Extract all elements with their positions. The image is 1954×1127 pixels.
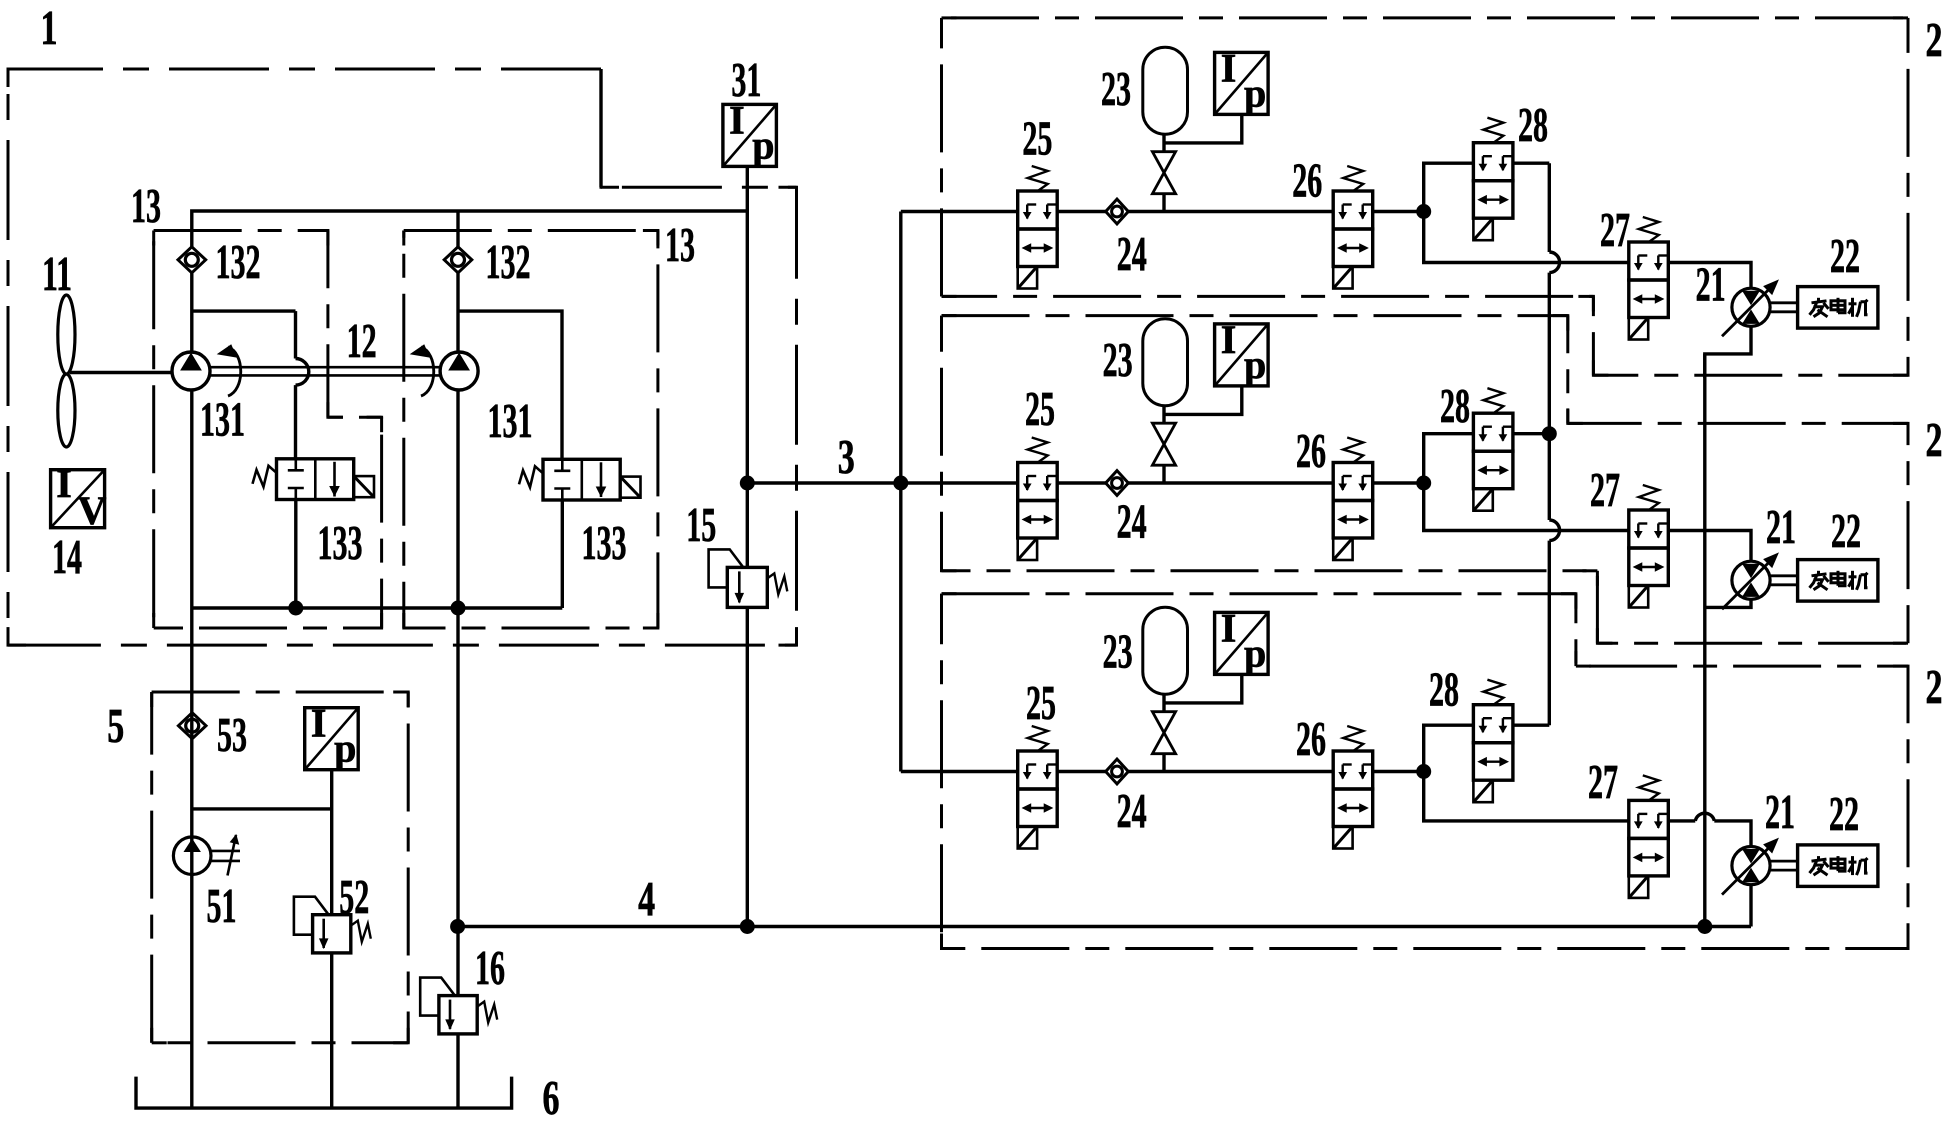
svg-text:25: 25	[1025, 381, 1055, 436]
svg-text:13: 13	[665, 217, 695, 272]
svg-text:2: 2	[1926, 412, 1943, 467]
svg-text:I: I	[1221, 605, 1237, 650]
svg-text:21: 21	[1766, 499, 1796, 554]
svg-text:27: 27	[1588, 754, 1618, 809]
svg-text:p: p	[1244, 70, 1266, 115]
svg-text:I: I	[1221, 45, 1237, 90]
svg-text:31: 31	[731, 52, 761, 107]
svg-text:16: 16	[475, 940, 505, 995]
svg-text:131: 131	[200, 392, 245, 447]
svg-text:I: I	[1221, 317, 1237, 362]
svg-text:53: 53	[217, 707, 247, 762]
svg-text:23: 23	[1103, 624, 1133, 679]
svg-text:4: 4	[638, 871, 655, 926]
svg-text:51: 51	[207, 878, 237, 933]
svg-text:I: I	[311, 701, 327, 746]
svg-text:24: 24	[1117, 783, 1147, 838]
svg-text:26: 26	[1296, 423, 1326, 478]
svg-text:27: 27	[1590, 462, 1620, 517]
svg-text:I: I	[56, 461, 72, 506]
svg-text:133: 133	[318, 515, 363, 570]
svg-text:27: 27	[1600, 202, 1630, 257]
svg-text:25: 25	[1026, 675, 1056, 730]
svg-text:28: 28	[1518, 97, 1548, 152]
svg-text:26: 26	[1292, 153, 1322, 208]
svg-text:13: 13	[131, 178, 161, 233]
svg-text:25: 25	[1022, 111, 1052, 166]
svg-text:15: 15	[686, 497, 716, 552]
svg-text:23: 23	[1103, 332, 1133, 387]
svg-text:14: 14	[52, 529, 82, 584]
svg-text:12: 12	[347, 313, 377, 368]
svg-text:28: 28	[1429, 662, 1459, 717]
svg-text:2: 2	[1926, 12, 1943, 67]
svg-text:2: 2	[1926, 659, 1943, 714]
svg-text:1: 1	[41, 0, 58, 55]
svg-text:p: p	[752, 122, 774, 167]
svg-text:5: 5	[107, 698, 124, 753]
svg-text:133: 133	[582, 515, 627, 570]
svg-text:3: 3	[838, 429, 855, 484]
svg-text:6: 6	[543, 1070, 560, 1125]
svg-text:24: 24	[1117, 226, 1147, 281]
svg-text:132: 132	[216, 234, 261, 289]
svg-text:p: p	[1244, 630, 1266, 675]
svg-text:21: 21	[1765, 784, 1795, 839]
svg-text:p: p	[334, 726, 356, 771]
svg-text:28: 28	[1440, 378, 1470, 433]
svg-text:52: 52	[339, 869, 369, 924]
svg-text:11: 11	[42, 246, 72, 301]
svg-text:22: 22	[1829, 786, 1859, 841]
svg-text:V: V	[78, 488, 107, 533]
svg-text:p: p	[1244, 342, 1266, 387]
svg-text:22: 22	[1831, 503, 1861, 558]
svg-text:131: 131	[488, 393, 533, 448]
svg-text:21: 21	[1696, 257, 1726, 312]
svg-text:132: 132	[486, 234, 531, 289]
svg-text:24: 24	[1117, 494, 1147, 549]
svg-text:26: 26	[1296, 711, 1326, 766]
svg-text:23: 23	[1101, 61, 1131, 116]
svg-text:22: 22	[1830, 228, 1860, 283]
